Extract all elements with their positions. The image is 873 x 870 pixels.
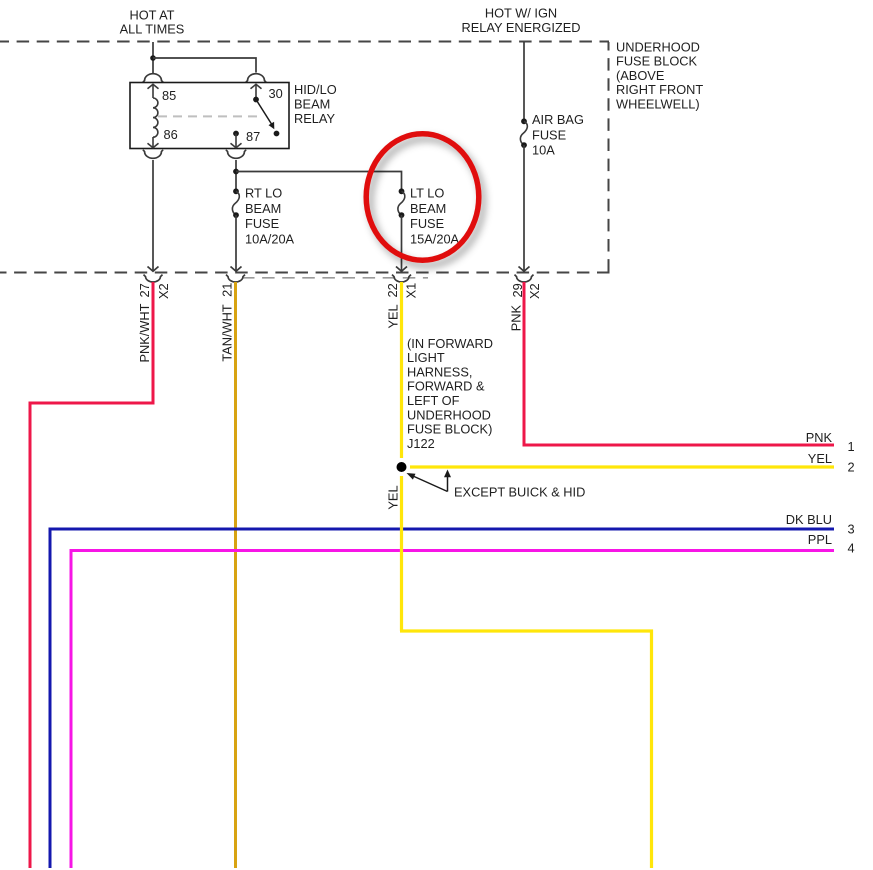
svg-text:HID/LO: HID/LO (294, 82, 337, 97)
underhood fuse block boundary: right dashed edge (608, 42, 610, 274)
svg-text:WHEELWELL): WHEELWELL) (616, 97, 700, 112)
svg-text:FUSE: FUSE (532, 127, 566, 142)
svg-text:YEL: YEL (385, 485, 400, 509)
svg-text:21: 21 (219, 283, 234, 297)
wire from hot bus to node (152, 42, 154, 73)
wire branch to LT LO fuse (236, 172, 402, 189)
wire PPL vertical (70, 549, 73, 868)
svg-text:FUSE: FUSE (245, 216, 279, 231)
label RT LO BEAM FUSE 10A/20A (245, 186, 295, 247)
svg-text:(ABOVE: (ABOVE (616, 68, 664, 83)
highlight ellipse around LT LO BEAM FUSE (366, 134, 479, 260)
svg-text:2: 2 (848, 460, 855, 475)
svg-text:TAN/WHT: TAN/WHT (219, 304, 234, 362)
svg-text:LT LO: LT LO (410, 186, 444, 201)
svg-text:15A/20A: 15A/20A (410, 231, 460, 246)
svg-text:RT LO: RT LO (245, 186, 282, 201)
label AIR BAG FUSE 10A (532, 112, 584, 157)
svg-text:X2: X2 (527, 283, 542, 299)
pin 87 dot (233, 131, 239, 137)
connector arc 22 (392, 275, 411, 282)
fuse LT LO BEAM (398, 188, 405, 218)
arrow into connector 22 (396, 267, 407, 272)
svg-text:22: 22 (385, 283, 400, 297)
svg-text:EXCEPT BUICK & HID: EXCEPT BUICK & HID (454, 485, 585, 500)
svg-text:86: 86 (164, 127, 178, 142)
label LT LO BEAM FUSE 15A/20A (410, 186, 460, 247)
svg-text:FUSE BLOCK: FUSE BLOCK (616, 54, 698, 69)
node: junction dot at top feed (150, 55, 156, 61)
wire YEL bottom horizontal (400, 631, 652, 868)
svg-text:30: 30 (269, 86, 283, 101)
connector arc above relay pin 30 (246, 74, 267, 82)
pin 85 lead (152, 85, 154, 99)
connector arc below relay pin 86 (143, 150, 164, 158)
wire YEL horizontal to pin 2 (410, 465, 834, 468)
svg-text:87: 87 (246, 129, 260, 144)
underhood fuse block boundary: top dashed bus line (0, 41, 609, 43)
wire YEL from connector 22 (400, 282, 403, 458)
svg-text:ALL TIMES: ALL TIMES (120, 21, 185, 36)
wire PNK/WHT colored run (30, 282, 153, 868)
arrow into connector 27 (148, 267, 159, 272)
wire PPL horizontal (71, 549, 834, 552)
arrow into connector 29 (519, 267, 530, 272)
wire TAN/WHT vertical (234, 282, 237, 868)
wire PNK colored run (524, 282, 834, 445)
switch blade with arrowhead (256, 100, 272, 125)
pin 85 arrow up (148, 84, 159, 88)
fuse RT LO BEAM (232, 188, 239, 218)
relay coil (153, 98, 158, 137)
pin 30 lead (255, 85, 257, 100)
svg-text:PNK: PNK (508, 304, 523, 331)
label HOT W/ IGN RELAY ENERGIZED (462, 6, 581, 35)
svg-text:X1: X1 (404, 283, 419, 299)
wire pin87 column down (235, 160, 237, 189)
svg-text:PPL: PPL (808, 532, 832, 547)
pin 87 arrow down (231, 143, 242, 147)
wire air bag fuse to connector 29 (523, 145, 525, 271)
svg-text:UNDERHOOD: UNDERHOOD (407, 407, 491, 422)
wire YEL below splice (400, 476, 403, 631)
connector arc 21 (226, 275, 245, 282)
pin 30 arrow up (251, 84, 262, 88)
svg-text:PNK/WHT: PNK/WHT (137, 303, 152, 362)
connector arc 29 (515, 275, 534, 282)
svg-text:27: 27 (137, 283, 152, 297)
svg-text:4: 4 (848, 541, 855, 556)
label (IN FORWARD LIGHT HARNESS...) J122 (407, 336, 493, 451)
connector arc above relay pin 85 (143, 74, 164, 82)
svg-text:3: 3 (848, 521, 855, 536)
svg-text:LEFT OF: LEFT OF (407, 393, 460, 408)
inner connector gray dashed line (242, 277, 428, 279)
label UNDERHOOD FUSE BLOCK (616, 39, 703, 111)
svg-text:UNDERHOOD: UNDERHOOD (616, 39, 700, 54)
svg-text:AIR BAG: AIR BAG (532, 112, 584, 127)
svg-text:(IN FORWARD: (IN FORWARD (407, 336, 493, 351)
wire DK BLU vertical (49, 528, 52, 869)
wire pin86 column down to fuse block exit (152, 160, 154, 271)
svg-text:1: 1 (848, 439, 855, 454)
label HID/LO BEAM RELAY (294, 82, 337, 126)
svg-text:10A/20A: 10A/20A (245, 231, 295, 246)
pin 86 lead (152, 137, 154, 147)
svg-text:YEL: YEL (385, 304, 400, 328)
relay internal gray dashed link (158, 115, 263, 117)
wire LT fuse to connector 22 (401, 215, 403, 271)
svg-text:BEAM: BEAM (294, 96, 330, 111)
wire ign feed down to air bag fuse (523, 42, 525, 119)
svg-text:RELAY ENERGIZED: RELAY ENERGIZED (462, 20, 581, 35)
connector arc 27 (144, 275, 163, 282)
underhood fuse block boundary: bottom dashed line (0, 272, 610, 274)
arrow pointing at YEL wire (except note) (444, 470, 451, 492)
svg-text:RELAY: RELAY (294, 111, 335, 126)
arrow pointing at splice (except note) (407, 473, 448, 492)
svg-text:HOT AT: HOT AT (129, 8, 174, 23)
svg-text:HARNESS,: HARNESS, (407, 364, 472, 379)
svg-text:X2: X2 (156, 283, 171, 299)
label HOT AT ALL TIMES (120, 8, 185, 37)
svg-text:BEAM: BEAM (245, 201, 281, 216)
relay box HID/LO BEAM RELAY (130, 83, 289, 149)
svg-text:BEAM: BEAM (410, 201, 446, 216)
svg-text:FORWARD &: FORWARD & (407, 379, 485, 394)
pin 86 arrow down (148, 143, 159, 147)
wire RT fuse to connector 21 (235, 215, 237, 271)
svg-text:FUSE BLOCK): FUSE BLOCK) (407, 422, 492, 437)
svg-text:HOT W/ IGN: HOT W/ IGN (485, 6, 557, 21)
svg-text:YEL: YEL (808, 451, 832, 466)
svg-text:RIGHT FRONT: RIGHT FRONT (616, 82, 703, 97)
svg-text:85: 85 (162, 88, 176, 103)
svg-text:LIGHT: LIGHT (407, 350, 445, 365)
fuse AIR BAG (520, 118, 527, 148)
switch pivot dot (253, 97, 259, 103)
svg-text:FUSE: FUSE (410, 216, 444, 231)
node junction to LT feed (233, 169, 239, 175)
switch contact dot (274, 131, 280, 137)
arrow into connector 21 (231, 267, 242, 272)
splice J122 dot (397, 462, 407, 472)
connector arc below relay pin 87 (226, 150, 247, 158)
svg-text:DK BLU: DK BLU (786, 512, 832, 527)
pin 87 lead (235, 134, 237, 148)
svg-text:J122: J122 (407, 436, 435, 451)
svg-text:PNK: PNK (806, 430, 833, 445)
wire DK BLU horizontal (50, 528, 834, 531)
svg-text:10A: 10A (532, 143, 555, 158)
wire feed to pin 30 (153, 58, 256, 73)
